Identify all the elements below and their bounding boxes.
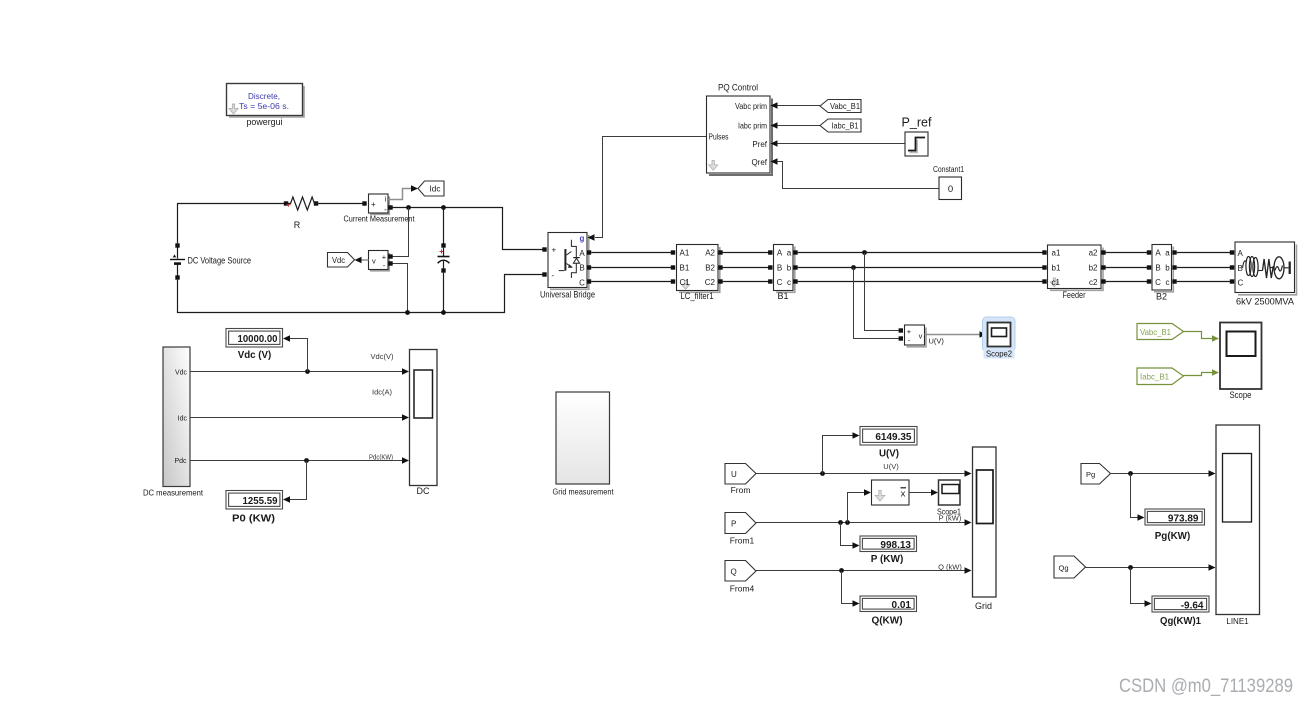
node Vdc tap	[305, 369, 310, 374]
port arrow Pref	[771, 140, 778, 146]
node j1	[406, 205, 411, 210]
svg-text:B: B	[579, 264, 584, 273]
voltage measurement v2	[899, 325, 945, 347]
node Qg tap	[1128, 565, 1133, 570]
svg-text:U(V): U(V)	[879, 448, 899, 459]
svg-text:Q (kW): Q (kW)	[938, 562, 962, 571]
svg-text:0: 0	[948, 184, 953, 195]
svg-text:Scope2: Scope2	[986, 349, 1012, 359]
svg-text:Constant1: Constant1	[933, 165, 964, 174]
svg-text:Idc: Idc	[430, 185, 441, 194]
wire Iabc_B1 to Scope	[1184, 373, 1213, 376]
wire row B Feeder to B2	[1106, 267, 1149, 269]
wire row C B1 to Feeder	[798, 281, 1045, 283]
svg-text:-: -	[384, 205, 387, 214]
svg-text:Ts = 5e-06 s.: Ts = 5e-06 s.	[239, 101, 289, 111]
svg-text:Iabc_B1: Iabc_B1	[832, 122, 860, 131]
svg-text:C2: C2	[705, 278, 716, 287]
source 6kV 2500MVA	[1230, 242, 1297, 308]
wire P tap to product	[848, 493, 865, 523]
svg-text:DC measurement: DC measurement	[143, 488, 204, 498]
svg-text:Q(KW): Q(KW)	[871, 615, 902, 626]
wire v1 to Vdc tag	[361, 259, 369, 261]
three-phase meter B2	[1147, 245, 1177, 302]
svg-text:Vabc_B1: Vabc_B1	[1140, 327, 1171, 337]
wire row B B2 to source	[1177, 267, 1232, 269]
wire Pdc row to DC scope	[190, 460, 403, 462]
svg-text:C: C	[777, 278, 783, 287]
from tag U	[725, 464, 756, 496]
svg-text:Qref: Qref	[751, 158, 767, 167]
svg-text:x: x	[901, 489, 906, 500]
wire row A bridge to LC	[591, 252, 673, 254]
wire CM output to bridge +	[390, 208, 544, 250]
svg-text:Scope: Scope	[1230, 390, 1252, 400]
svg-text:From4: From4	[730, 584, 755, 594]
scope Scope1	[937, 480, 961, 516]
wire row B bridge to LC	[591, 267, 673, 269]
svg-text:B1: B1	[680, 264, 690, 273]
svg-text:c: c	[1166, 278, 1170, 287]
display P0 (KW)	[226, 491, 283, 525]
wire P row to Grid	[756, 522, 965, 524]
svg-text:+: +	[371, 200, 376, 209]
svg-text:a: a	[787, 249, 792, 258]
wire P tap to display	[841, 523, 854, 546]
wire Vdc row to DC scope	[190, 371, 403, 373]
svg-text:powergui: powergui	[247, 117, 283, 127]
wire row A LC to B1	[723, 252, 769, 254]
display U(V)	[860, 427, 917, 460]
wire tap A to v2	[865, 253, 900, 331]
svg-text:c: c	[787, 278, 791, 287]
goto tag Vdc	[328, 253, 355, 268]
svg-text:Vabc_B1: Vabc_B1	[830, 102, 861, 111]
wire row C LC to B1	[723, 281, 769, 283]
LC_filter1	[671, 245, 723, 302]
svg-text:C: C	[1155, 278, 1161, 287]
capacitor C	[438, 208, 450, 313]
wire row C bridge to LC	[591, 281, 673, 283]
port arrow Iabc prim	[771, 122, 778, 128]
node P tap 2	[845, 520, 850, 525]
svg-text:Feeder: Feeder	[1063, 290, 1086, 300]
resistor R	[284, 197, 318, 230]
display Vdc (V)	[226, 329, 283, 361]
wire v1 plus branch	[393, 208, 409, 257]
svg-text:B1: B1	[777, 291, 788, 301]
wire Pg row to LINE1	[1111, 473, 1210, 475]
svg-text:B: B	[1155, 264, 1160, 273]
svg-text:973.89: 973.89	[1168, 513, 1199, 524]
svg-text:-9.64: -9.64	[1181, 600, 1204, 611]
svg-text:Grid: Grid	[975, 601, 992, 611]
display Pg(KW)	[1145, 509, 1205, 542]
wire top-left	[178, 204, 287, 244]
wire U row to Grid	[756, 473, 965, 475]
svg-text:c1: c1	[1052, 278, 1061, 287]
node j2	[441, 205, 446, 210]
wire P_ref to Pref	[777, 143, 905, 145]
svg-text:998.13: 998.13	[880, 540, 911, 551]
wire Vdc tap to display	[290, 339, 308, 372]
wire tap B to v2	[854, 268, 900, 339]
svg-text:B2: B2	[1156, 292, 1167, 302]
svg-text:A: A	[579, 249, 585, 258]
goto tag Idc	[418, 181, 444, 196]
wire row A B2 to source	[1177, 252, 1232, 254]
svg-text:Qg(KW)1: Qg(KW)1	[1160, 616, 1201, 627]
powergui block	[227, 84, 305, 128]
wire Iabc_B1 tag to PQ	[777, 125, 820, 127]
three-phase meter B1	[768, 245, 798, 302]
svg-text:A2: A2	[705, 249, 715, 258]
from tag Iabc_B1 (green)	[1137, 368, 1184, 385]
svg-text:Vdc (V): Vdc (V)	[238, 350, 272, 361]
from tag Q	[725, 561, 756, 594]
svg-text:a2: a2	[1089, 249, 1098, 258]
wire Vabc_B1 tag to PQ	[777, 105, 820, 107]
wire CM i output	[388, 189, 412, 200]
svg-text:U: U	[731, 470, 737, 479]
svg-text:a: a	[1165, 249, 1170, 258]
svg-text:Pg(KW): Pg(KW)	[1155, 531, 1191, 542]
svg-text:b1: b1	[1052, 264, 1061, 273]
svg-text:Vdc(V): Vdc(V)	[371, 352, 394, 361]
wire Constant1 to Qref	[777, 162, 939, 189]
svg-text:1255.59: 1255.59	[243, 496, 278, 507]
svg-text:LINE1: LINE1	[1226, 617, 1249, 626]
svg-text:From1: From1	[730, 536, 755, 546]
display Q(KW)	[860, 596, 917, 626]
svg-text:Vabc prim: Vabc prim	[735, 102, 767, 111]
svg-text:B: B	[777, 264, 782, 273]
svg-text:P: P	[731, 520, 736, 529]
svg-text:c2: c2	[1089, 278, 1098, 287]
svg-text:A: A	[777, 249, 783, 258]
wire Vabc_B1 to Scope	[1184, 332, 1213, 339]
svg-text:P (KW): P (KW)	[871, 554, 904, 565]
svg-text:0.01: 0.01	[892, 600, 912, 611]
svg-text:6kV 2500MVA: 6kV 2500MVA	[1236, 297, 1295, 308]
wire row C B2 to source	[1177, 281, 1232, 283]
universal bridge U1	[540, 233, 595, 300]
subsystem DC measurement	[143, 347, 204, 498]
svg-text:C: C	[579, 279, 585, 288]
port arrow Vabc prim	[771, 102, 778, 108]
svg-text:-: -	[552, 271, 555, 280]
from tag Vabc_B1	[820, 100, 861, 113]
svg-text:Pulses: Pulses	[709, 132, 729, 141]
svg-text:Grid measurement: Grid measurement	[553, 487, 615, 497]
svg-text:+: +	[552, 246, 557, 255]
wire resistor to current measurement	[316, 203, 365, 205]
port arrow Qref	[771, 158, 778, 164]
wire Pg tap to display	[1131, 474, 1139, 518]
scope Scope	[1220, 323, 1262, 401]
current measurement CM	[344, 194, 416, 224]
svg-text:A: A	[1155, 249, 1161, 258]
step source P_ref	[902, 116, 933, 157]
svg-text:B: B	[1238, 264, 1243, 273]
wire mean to Scope1	[909, 492, 932, 494]
svg-text:C1: C1	[680, 278, 691, 287]
svg-text:Iabc_B1: Iabc_B1	[1140, 371, 1169, 381]
svg-text:U(V): U(V)	[883, 462, 899, 471]
three-phase block Feeder	[1042, 245, 1105, 300]
svg-text:Q: Q	[731, 568, 737, 577]
display P (KW)	[860, 536, 917, 565]
svg-text:C: C	[1238, 279, 1244, 288]
DC Voltage Source	[170, 243, 251, 279]
svg-text:Pref: Pref	[752, 140, 767, 149]
svg-text:P (kW): P (kW)	[939, 513, 962, 522]
wire Q tap to display	[842, 571, 854, 604]
from tag Pg	[1081, 464, 1111, 485]
wire bottom bus	[178, 275, 545, 313]
wire row B LC to B1	[723, 267, 769, 269]
svg-text:6149.35: 6149.35	[875, 432, 912, 443]
svg-text:B2: B2	[705, 264, 715, 273]
wire v1 minus branch	[393, 264, 408, 313]
svg-text:CSDN @m0_71139289: CSDN @m0_71139289	[1119, 676, 1293, 697]
wire row A Feeder to B2	[1106, 252, 1149, 254]
wire v2 to Scope2	[925, 334, 981, 336]
svg-text:Universal Bridge: Universal Bridge	[540, 290, 595, 300]
svg-text:Current Measurement: Current Measurement	[344, 215, 416, 224]
svg-text:DC Voltage Source: DC Voltage Source	[188, 256, 252, 266]
display Qg(KW)1	[1152, 596, 1209, 627]
scope Grid	[973, 447, 997, 611]
svg-text:v: v	[919, 331, 923, 340]
from tag Iabc_B1	[820, 119, 861, 132]
scope DC	[410, 350, 438, 497]
node U tap	[820, 471, 825, 476]
wire row C Feeder to B2	[1106, 281, 1149, 283]
svg-text:Idc(A): Idc(A)	[372, 388, 393, 397]
wire Pdc tap to display	[290, 461, 307, 500]
svg-text:b: b	[1165, 264, 1170, 273]
svg-text:P_ref: P_ref	[902, 116, 933, 130]
mean block (running mean)	[872, 480, 910, 505]
svg-text:a1: a1	[1052, 249, 1061, 258]
from tag Qg	[1054, 556, 1086, 578]
from tag Vabc_B1 (green)	[1137, 324, 1184, 340]
svg-text:Pg: Pg	[1086, 470, 1095, 479]
node Q tap	[839, 568, 844, 573]
svg-text:DC: DC	[417, 486, 430, 496]
svg-text:Vdc: Vdc	[332, 256, 345, 265]
svg-text:Iabc prim: Iabc prim	[738, 121, 767, 130]
svg-text:b: b	[787, 264, 792, 273]
wire Q row to Grid	[756, 570, 965, 572]
scope Scope2 (selected)	[983, 317, 1016, 359]
node j4	[441, 310, 446, 315]
wire Qg tap to display	[1131, 568, 1146, 604]
svg-text:Pdc: Pdc	[174, 458, 187, 465]
constant Constant1	[933, 165, 964, 200]
node j3	[405, 310, 410, 315]
svg-text:10000.00: 10000.00	[238, 334, 278, 345]
wire Idc row to DC scope	[190, 417, 403, 419]
subsystem PQ Control	[707, 83, 773, 176]
svg-text:Discrete,: Discrete,	[248, 91, 280, 101]
svg-text:Pdc(KW): Pdc(KW)	[369, 453, 393, 462]
svg-text:U(V): U(V)	[929, 337, 945, 346]
scope LINE1	[1216, 425, 1260, 626]
wire pulses to g	[595, 137, 707, 238]
svg-text:v: v	[372, 257, 376, 266]
node Pg tap	[1128, 471, 1133, 476]
svg-text:LC_filter1: LC_filter1	[681, 291, 714, 301]
wire row A B1 to Feeder	[798, 252, 1045, 254]
node row B tap	[851, 265, 856, 270]
node P tap 1	[838, 520, 843, 525]
voltage measurement v1	[369, 251, 393, 271]
svg-text:PQ Control: PQ Control	[718, 83, 758, 93]
from tag P	[725, 513, 756, 546]
svg-text:g: g	[580, 234, 585, 243]
subsystem Grid measurement	[553, 392, 615, 497]
node Pdc tap	[304, 458, 309, 463]
svg-text:A1: A1	[680, 249, 690, 258]
svg-text:b2: b2	[1089, 264, 1098, 273]
wire Qg row to LINE1	[1086, 567, 1210, 569]
wire U tap to display	[823, 436, 854, 474]
svg-text:R: R	[294, 220, 301, 230]
wire row B B1 to Feeder	[798, 267, 1045, 269]
svg-text:P0 (KW): P0 (KW)	[232, 513, 275, 524]
svg-text:Qg: Qg	[1059, 563, 1069, 572]
svg-text:Idc: Idc	[178, 415, 188, 422]
svg-text:A: A	[1238, 249, 1244, 258]
svg-text:Vdc: Vdc	[175, 369, 188, 376]
svg-text:From: From	[731, 485, 751, 495]
node row A tap	[862, 250, 867, 255]
